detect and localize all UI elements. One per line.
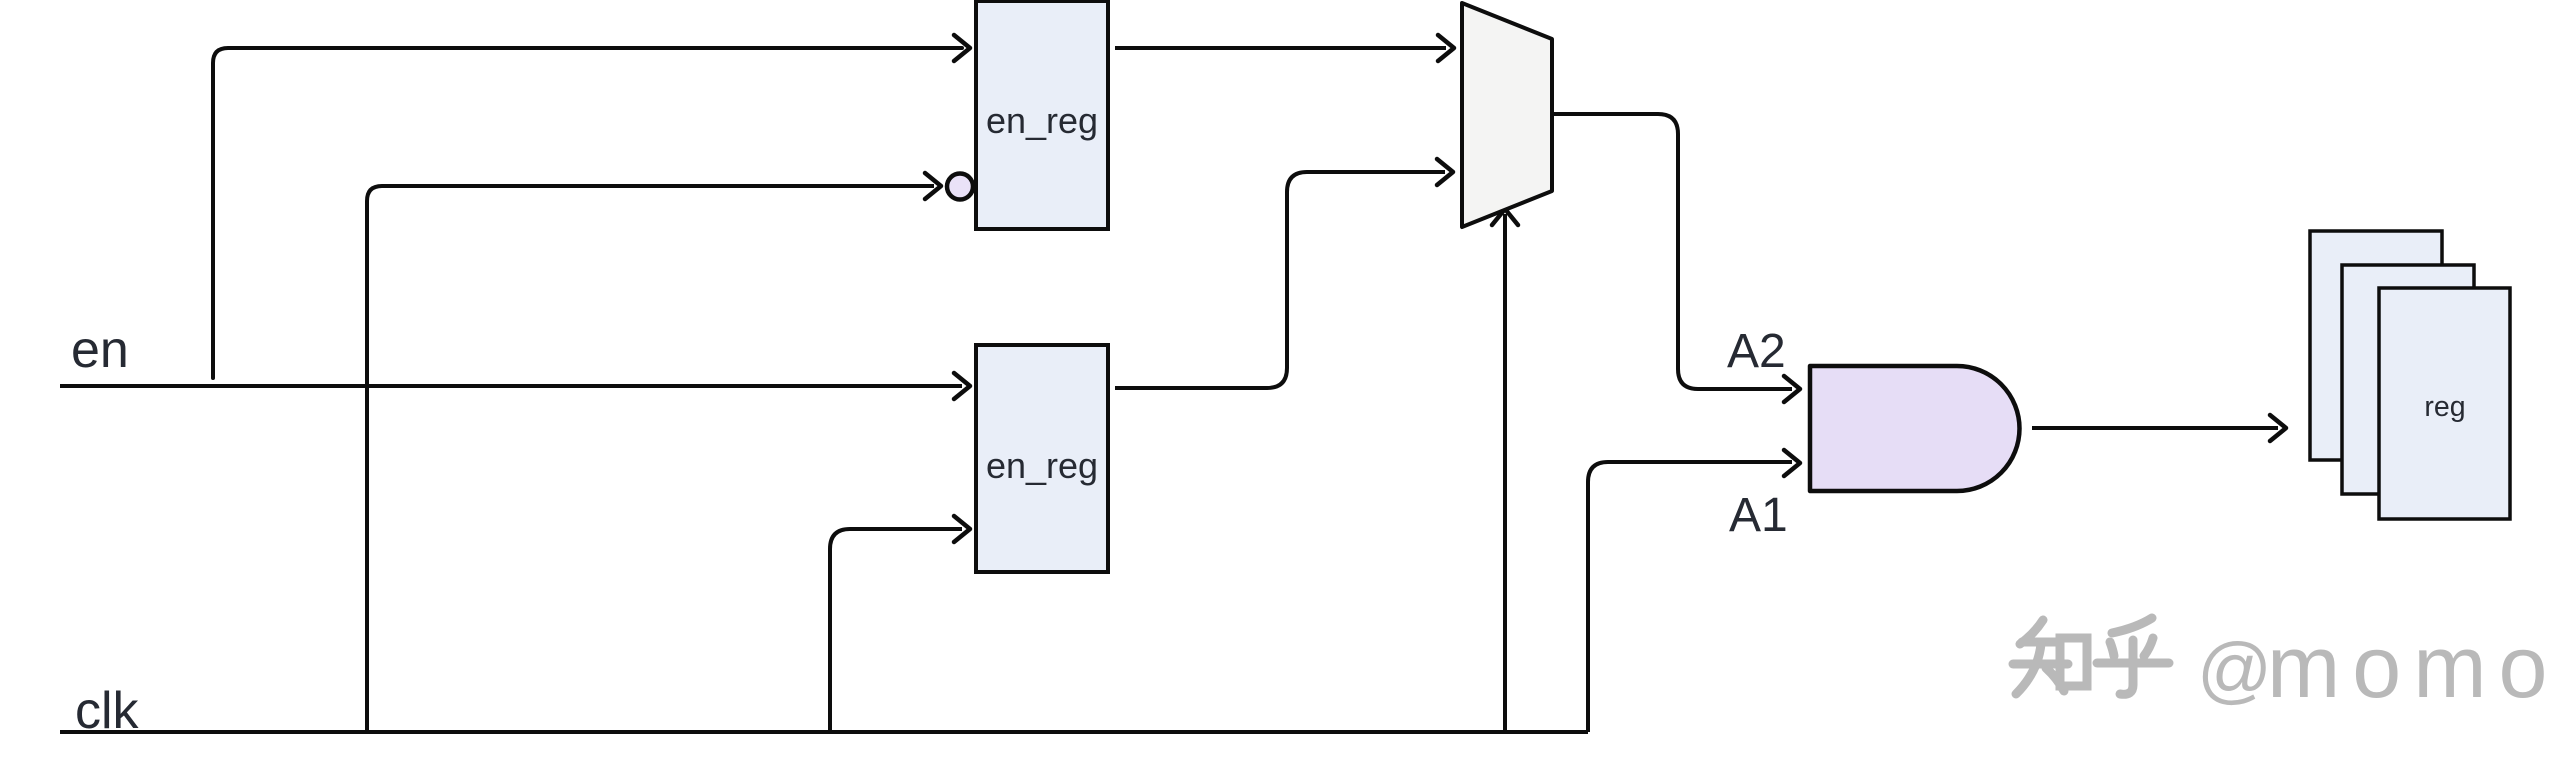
- arrowhead into top register bubble input: [925, 173, 941, 199]
- svg-text:en_reg: en_reg: [986, 100, 1098, 141]
- wire clk branch up to bottom register clock input: [830, 529, 962, 732]
- wire clk to AND gate input A1: [1588, 462, 1792, 732]
- svg-text:@: @: [2197, 628, 2272, 711]
- arrowhead into mux input 2: [1437, 159, 1453, 185]
- wire clk net horizontal: [60, 730, 1588, 734]
- wire en net horizontal: [60, 384, 962, 388]
- arrowhead into mux input 1: [1438, 35, 1454, 61]
- wire AND gate output to reg stack: [2032, 426, 2278, 430]
- register en_reg (top): [976, 1, 1108, 229]
- arrowhead into AND gate input A2: [1784, 376, 1800, 402]
- svg-text:momo: momo: [2267, 617, 2560, 716]
- svg-text:A2: A2: [1727, 325, 1786, 378]
- wire clk branch up to bubble input of top register: [367, 186, 934, 732]
- arrowhead into top register input 1: [954, 35, 970, 61]
- reg stack front sheet (reg): [2379, 288, 2510, 519]
- arrowhead into bottom register clock input: [954, 516, 970, 542]
- svg-text:en: en: [71, 321, 129, 379]
- mux: [1462, 3, 1552, 227]
- arrowhead into AND gate input A1: [1784, 450, 1800, 476]
- wire mux select from clk: [1503, 214, 1507, 732]
- wire en branch up to top register: [213, 48, 962, 378]
- arrowhead into reg stack: [2270, 415, 2286, 441]
- reg stack back sheet: [2310, 231, 2442, 460]
- svg-text:A1: A1: [1729, 489, 1788, 542]
- arrowhead into mux select: [1492, 209, 1518, 225]
- watermark 乎 glyph strokes: [2097, 618, 2169, 694]
- watermark 知 mouth box: [2060, 638, 2087, 686]
- reg stack middle sheet: [2342, 265, 2474, 494]
- watermark 知 glyph strokes: [2013, 620, 2068, 694]
- wire bottom register output to mux input 2: [1115, 172, 1445, 388]
- svg-text:en_reg: en_reg: [986, 445, 1098, 486]
- svg-text:reg: reg: [2424, 391, 2465, 423]
- wire top register output to mux input 1: [1115, 46, 1446, 50]
- svg-text:clk: clk: [75, 682, 140, 740]
- AND gate: [1810, 366, 2020, 491]
- wire mux output to AND gate input A2: [1554, 114, 1792, 389]
- arrowhead into bottom register input 1: [954, 373, 970, 399]
- register en_reg (bottom): [976, 345, 1108, 572]
- inverter bubble on top register clock input: [947, 174, 973, 200]
